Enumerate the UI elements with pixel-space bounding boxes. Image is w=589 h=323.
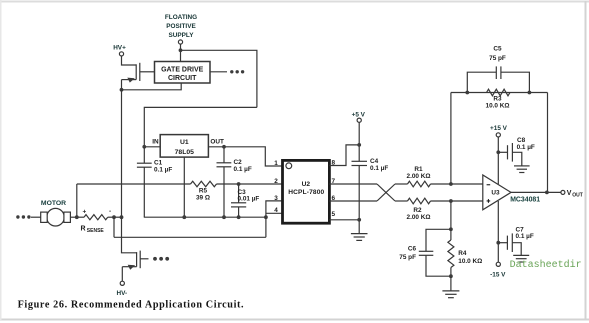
U2 pin 5 label [332,211,336,218]
wire U1 ground [183,157,185,217]
U2 pin 3 label [274,195,278,202]
capacitor C6 [419,251,434,255]
wire U1 input [144,146,160,148]
node HV+ terminal [119,52,123,56]
svg-text:10.0 KΩ: 10.0 KΩ [458,258,482,265]
svg-text:HCPL-7800: HCPL-7800 [288,189,324,196]
resistor R4 [448,229,454,276]
svg-text:HV-: HV- [116,290,127,297]
wire down to Q2 drain [122,217,137,253]
figure caption [18,299,245,310]
wire Q1 source junction to gate drive box bottom [122,83,182,90]
wire feedback right vertical to output [547,93,549,193]
node +15V terminal [496,133,500,137]
node -15V terminal [496,262,500,266]
block gate drive circuit [155,62,211,84]
wire feedback top horizontal [451,92,548,94]
R4 value label [458,250,482,265]
svg-text:78L05: 78L05 [175,149,194,156]
svg-text:3: 3 [274,195,278,202]
node motor/Rsense junction [75,215,79,219]
ground below R4 [442,291,459,298]
node HV+ label [113,45,126,52]
resistor R3 [487,89,511,96]
svg-text:OUT: OUT [210,138,224,145]
wire non-inverting node down [450,201,452,229]
U3 part number label MC34081 [510,196,540,203]
svg-text:OUT: OUT [572,193,583,199]
node continuation dots at Q2 gate [153,257,169,261]
wire R1 to inverting node [431,183,483,185]
Rsense plus mark [83,208,87,215]
wire Q2 gate stub [140,258,148,260]
wire R4 to ground [450,276,452,291]
capacitor C7 [507,233,512,252]
wire to R2 [395,200,408,202]
wire U1 output to pin1 jog [208,147,282,166]
svg-text:R4: R4 [458,250,467,257]
U2 pin 4 label [274,207,278,214]
wire input-side ground rail [144,216,266,218]
U2 pin 8 label [332,159,336,166]
node output junction [545,191,549,195]
wire C1 branch vertical [143,147,145,217]
node U1 output junction [222,145,226,149]
svg-text:0.1 µF: 0.1 µF [517,144,535,151]
node C5 branch left junction [465,91,469,95]
svg-text:HV+: HV+ [113,45,126,52]
svg-text:1: 1 [274,160,278,167]
node non-inverting input junction [449,199,453,203]
svg-text:+15 V: +15 V [490,125,508,132]
node floating supply terminal [178,40,182,44]
-15 V label [490,272,506,279]
svg-text:0.1 µF: 0.1 µF [234,166,252,173]
wire C5 loop right [501,72,530,92]
wire +5V vertical with C4 in series [358,122,360,233]
svg-text:C5: C5 [493,45,502,52]
svg-text:2.00 KΩ: 2.00 KΩ [407,214,431,221]
R1 value label [407,166,431,180]
R2 value label [407,207,431,221]
svg-text:0.1 µF: 0.1 µF [154,167,172,174]
wire U2 pin 8 jog to +5V [329,145,359,166]
wire Q1 gate to gate drive circuit [140,71,155,73]
node C7 branch junction [496,241,500,245]
MOTOR label [41,200,66,207]
wire C2 branch vertical [223,147,225,217]
svg-text:0.1 µF: 0.1 µF [370,165,388,172]
node HV- label [116,290,127,297]
resistor R1 [408,181,431,187]
R5 value label [196,188,210,202]
op-amp U3 [483,175,511,210]
wire crossover pin7 to R2 [377,184,395,201]
svg-text:C6: C6 [408,246,417,253]
svg-text:IN: IN [152,138,159,145]
svg-text:MC34081: MC34081 [510,196,540,203]
svg-text:U2: U2 [302,181,311,188]
wire U2 pin 7 [329,183,377,185]
U1 OUT pin label [210,138,224,145]
transistor Q2 (lower MOSFET) [122,251,140,282]
wire op-amp output [511,191,561,193]
wire to R1 [395,183,408,185]
svg-text:SUPPLY: SUPPLY [169,32,195,39]
U2 pin 2 label [274,178,278,185]
node junction supply [179,48,183,52]
C2 value label [234,159,252,173]
wire C6 branch [426,229,451,276]
wire C7 to ground [512,243,521,256]
wire pin4 stub [266,212,283,214]
svg-text:V: V [567,190,572,197]
U2 pin 6 label [332,195,336,202]
capacitor C1 [137,163,152,167]
node C8 branch junction [496,150,500,154]
ground at C8 [514,166,530,173]
VOUT label [567,190,583,199]
svg-text:5: 5 [332,211,336,218]
capacitor C4 [352,161,368,165]
wire dots to motor [31,216,41,218]
wire motor to R sense [70,216,84,218]
Rsense minus mark [109,208,111,215]
svg-text:-: - [109,208,111,215]
node R4 bottom junction [449,274,453,278]
wire feedback left vertical [450,93,452,185]
svg-text:POSITIVE: POSITIVE [166,23,196,30]
transistor Q1 (upper MOSFET) [122,63,140,90]
wire C8 to ground [512,152,521,166]
resistor R2 [408,198,431,204]
motor M1 [41,208,71,226]
svg-text:0.1 µF: 0.1 µF [516,233,534,240]
node FLOATING POSITIVE SUPPLY label [165,14,197,39]
node FET column junction [120,215,124,219]
node ground rail junction dots [182,215,267,219]
node HV- terminal [120,281,124,285]
C5 value label [489,45,506,62]
node pin5 junction [357,218,361,222]
wire supply node to right vertical [181,50,257,107]
node Q1 source junction [120,88,124,92]
node +5V terminal [357,118,361,122]
C7 value label [516,227,534,241]
node C5 branch right junction [528,91,532,95]
svg-text:-15 V: -15 V [490,272,506,279]
wire C3 branch vertical [238,184,240,217]
ground at C7 [513,255,529,262]
U1 IN pin label [152,138,159,145]
svg-text:U1: U1 [180,139,189,146]
wire U2 pin 5 to ground column [329,219,359,221]
svg-text:FLOATING: FLOATING [165,14,197,21]
svg-text:CIRCUIT: CIRCUIT [168,75,197,82]
capacitor C3 [231,203,246,207]
U2 pin 1 label [274,160,278,167]
capacitor C8 [508,143,513,162]
svg-text:75 pF: 75 pF [399,254,416,261]
U2 pin 7 label [332,178,336,185]
resistor R SENSE [84,215,108,220]
wire C7 branch [498,242,507,244]
wire R2 to non-inverting node [431,200,483,202]
+15 V label [490,125,508,132]
svg-text:MOTOR: MOTOR [41,200,66,207]
wire crossover pin6 to R1 [377,184,395,201]
C4 value label [370,158,388,172]
wire +15V down to op-amp V+ [497,137,499,184]
watermark Datasheetdir [510,259,582,271]
node VOUT terminal [561,190,565,194]
node R4 C6 top junction [449,227,453,231]
capacitor C2 [217,163,232,167]
svg-text:75 pF: 75 pF [489,55,506,62]
R3 value label [486,96,510,110]
wire Rsense to junctions [108,216,122,218]
C8 value label [517,137,535,151]
wire C8 branch [498,151,507,153]
isolation amplifier U2 HCPL-7800 [283,160,330,223]
svg-text:GATE DRIVE: GATE DRIVE [161,66,204,73]
svg-text:SENSE: SENSE [87,228,105,234]
wire R5 to U2 pin 2 [217,183,283,185]
node inverting input junction [449,182,453,186]
resistor R5 [191,181,217,187]
svg-text:C1: C1 [154,160,163,167]
ground output side under C4 [351,234,368,241]
svg-text:U3: U3 [491,190,500,197]
wire U2 pin 6 [329,200,377,202]
R SENSE label [81,226,105,234]
wire Rsense+ up to sense line [76,184,78,217]
node C3 top junction [237,182,241,186]
node pin8 +5V junction [357,143,361,147]
svg-text:C2: C2 [234,159,243,166]
capacitor C5 [496,66,501,79]
wire lower return line [114,236,266,238]
node continuation dots left of motor [16,215,30,218]
wire Rsense- down to return line [113,217,115,237]
C1 value label [154,160,172,174]
wire right vertical down to U1 input rail [144,107,257,146]
wire HV+ to Q1 drain [122,56,137,65]
node U1 input junction [142,145,146,149]
node continuation dots right of gate drive [230,70,244,73]
wire sense line to U2 pin 2 [77,183,191,185]
svg-text:2: 2 [274,178,278,185]
+5 V label [352,112,366,119]
svg-text:0.01 µF: 0.01 µF [238,196,260,203]
svg-text:Datasheetdir: Datasheetdir [510,259,582,271]
svg-text:39 Ω: 39 Ω [196,194,210,201]
wire Q1 source down to sense rail [121,90,123,217]
wire pin3 jog [266,201,283,237]
svg-text:10.0 KΩ: 10.0 KΩ [486,102,510,109]
wire op-amp V- down to -15V [497,201,499,262]
wire gate drive circuit output [210,71,227,73]
svg-text:4: 4 [274,207,278,214]
C3 value label [238,189,260,203]
regulator U1 78L05 [160,135,208,158]
node Rsense- junction [112,215,116,219]
wire supply terminal to gate drive box top [180,44,182,61]
svg-text:R: R [81,226,86,233]
wire C5 loop [467,72,496,92]
svg-text:Figure 26. Recommended Applica: Figure 26. Recommended Application Circu… [18,299,245,310]
svg-text:2.00 KΩ: 2.00 KΩ [407,173,431,180]
C6 value label [399,246,416,261]
